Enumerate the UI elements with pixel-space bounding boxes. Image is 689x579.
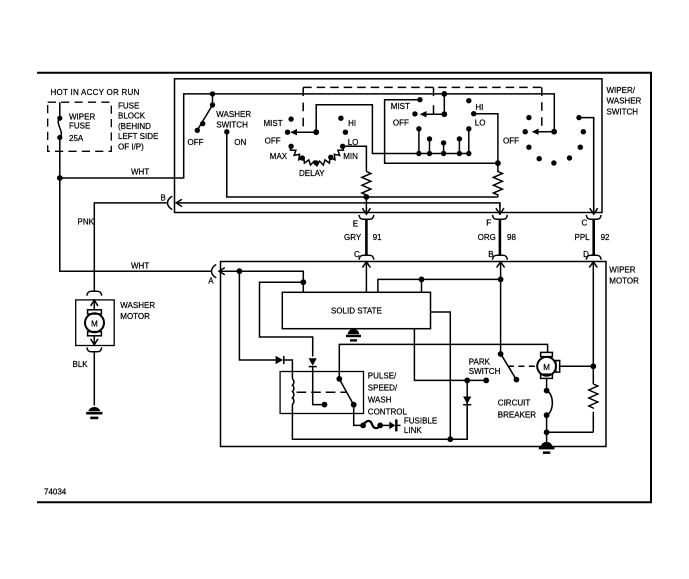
wire relay coil bottom to bus [292,404,450,439]
washer motor M1 [85,310,104,336]
wire resistor bottom to breaker net [547,431,594,433]
svg-text:ORG: ORG [478,233,496,242]
svg-text:WIPER/: WIPER/ [607,86,636,95]
wiper/washer switch box [175,79,603,213]
svg-text:OFF: OFF [265,137,281,146]
svg-text:OF I/P): OF I/P) [118,143,144,152]
connector A arrow [208,268,225,286]
resistor R2 [493,163,502,197]
svg-text:PPL: PPL [575,233,591,242]
wire motor right brush to D net [560,365,594,367]
svg-text:WIPER: WIPER [609,266,635,275]
svg-text:WASHER: WASHER [120,301,155,310]
node B net [498,277,504,283]
wiper fuse 25A [57,102,95,151]
svg-text:ON: ON [234,138,246,147]
label FUSE BLOCK (BEHIND LEFT SIDE OF I/P) [118,101,158,151]
G_SWITCH_INTERNALS [161,87,598,214]
wire S2 LO down [474,114,498,164]
svg-text:FUSE: FUSE [69,121,90,130]
svg-text:LEFT SIDE: LEFT SIDE [118,132,158,141]
svg-text:(BEHIND: (BEHIND [118,122,151,131]
svg-text:91: 91 [373,233,382,242]
solid state bottom output to park contact [414,329,486,381]
svg-text:HI: HI [475,103,483,112]
arrow down to bottom cup [91,336,98,345]
wire branch to relay coil via diode D1 [239,271,275,360]
wire PNK [78,203,167,291]
relay switch [336,376,356,408]
node park contact [464,378,470,384]
svg-text:B: B [161,193,166,202]
node D net motor [590,363,596,369]
delay resistor arc [288,144,345,166]
svg-text:WASHER: WASHER [607,97,642,106]
wire line1 E net [366,196,498,198]
svg-text:LO: LO [475,118,486,127]
G_MOTORBOX [208,262,639,454]
svg-text:BLK: BLK [73,360,89,369]
washer switch SW1 [188,91,252,147]
G_FUSEAREA [48,88,213,291]
resistor R1 [362,172,371,197]
solid state right output [431,312,451,439]
svg-text:MIN: MIN [343,152,358,161]
svg-text:PNK: PNK [78,217,95,226]
wire A net [219,271,303,292]
connector cup bottom [87,347,102,351]
svg-text:WHT: WHT [131,262,149,271]
wire ON to line1 [227,132,367,197]
wire S3 HI contact to C connector [579,118,594,214]
svg-text:F: F [486,218,491,227]
svg-text:MOTOR: MOTOR [120,312,150,321]
node A-SS junction [300,279,306,285]
junction node [57,175,63,181]
fusible link [360,416,437,435]
diode D1 [276,356,284,364]
wire B net arrow and park feed [497,262,505,354]
wire WHT bus inside switch [213,94,555,132]
wire BLK to ground [73,352,95,406]
svg-text:WHT: WHT [131,168,149,177]
park switch [469,351,520,382]
wire relay common to fusible link [354,405,363,426]
wiper motor M2 [537,352,560,378]
connector C arrow down [590,118,598,215]
contact relay NO [322,402,328,408]
S2 contact row [416,126,471,156]
svg-text:25A: 25A [69,134,84,143]
node E junction [364,194,370,200]
wire branch into SS [421,279,423,292]
relay box pulse/speed/wash control [280,372,407,417]
svg-text:92: 92 [601,233,610,242]
dashed mechanical link [303,87,545,132]
wire line B to diode D2 [260,282,313,356]
wire WHT down to A [60,178,212,271]
node R2 top junction [495,160,501,166]
svg-text:MIST: MIST [391,102,410,111]
svg-text:HOT IN ACCY OR RUN: HOT IN ACCY OR RUN [51,88,140,97]
node bus junction [447,436,453,442]
svg-text:CONTROL: CONTROL [368,407,408,416]
wire line2 B-F net [178,203,500,207]
ground washer [86,407,102,419]
wire motor bottom [546,378,548,390]
svg-text:SWITCH: SWITCH [607,108,639,117]
wire MIN to resistor R1 [343,146,367,171]
svg-text:BREAKER: BREAKER [498,410,536,419]
svg-text:C: C [354,250,360,259]
connector E-C harness wire GRY 91 [344,215,382,260]
rotary switch S3 [503,115,586,166]
connector A bracket [212,265,217,278]
rotary switch S1 (delay) [264,116,359,178]
fuse block dashed box [48,102,112,151]
svg-text:WASH: WASH [368,395,392,404]
wire D2 to relay contact [313,367,325,405]
svg-text:OFF: OFF [393,118,409,127]
svg-text:D: D [583,250,589,259]
arrow up into cup [91,300,98,310]
svg-text:E: E [353,219,358,228]
wire WHT to switch [60,94,213,178]
wiper motor box [221,262,607,447]
svg-text:B: B [488,250,493,259]
node resistor join [544,429,550,435]
svg-text:OFF: OFF [188,138,204,147]
connector F-B harness wire ORG 98 [478,215,517,260]
node branch SS top [419,277,425,283]
resistor R3 [589,366,598,432]
svg-text:M: M [543,363,550,372]
svg-text:SWITCH: SWITCH [469,367,501,376]
circuit breaker [498,388,553,420]
connector F arrow down [496,203,504,214]
relay coil [292,379,293,405]
svg-text:CIRCUIT: CIRCUIT [498,399,531,408]
border frame [37,73,651,503]
connector cup top [87,291,102,295]
wire D net arrow [589,262,597,367]
wire D1 to coil [284,360,293,379]
solid state module U1 [282,292,430,328]
contact park end [483,378,489,384]
diode D2 [309,358,317,366]
svg-text:HI: HI [348,119,356,128]
svg-text:PULSE/: PULSE/ [368,372,397,381]
rotary switch S2 [391,91,486,127]
svg-text:74034: 74034 [44,488,67,497]
svg-text:FUSE: FUSE [118,101,139,110]
svg-text:C: C [582,218,588,227]
svg-text:FUSIBLE: FUSIBLE [404,416,437,425]
G_SWITCHBOX [175,79,642,213]
wire bus to diode D3 [450,405,467,440]
svg-text:MOTOR: MOTOR [609,277,639,286]
dashed link park to motor [508,365,536,367]
svg-text:MAX: MAX [270,152,288,161]
washer motor box [76,300,115,346]
svg-text:LINK: LINK [404,426,422,435]
wire S2 MIST loop [385,100,498,164]
wire breaker to ground [546,415,548,442]
node A branch [237,268,243,274]
connector B arrow [161,193,183,206]
diode D3 [463,380,471,439]
wire line A2: SS top links [378,279,501,292]
svg-text:M: M [91,319,98,328]
svg-text:WASHER: WASHER [216,110,251,119]
svg-text:SPEED/: SPEED/ [368,384,398,393]
svg-text:OFF: OFF [503,137,519,146]
svg-text:98: 98 [507,233,516,242]
wire relay contact riser to motor [339,344,547,379]
svg-text:BLOCK: BLOCK [118,112,146,121]
svg-text:SWITCH: SWITCH [216,121,248,130]
wire S1 common riser to S2 row [316,105,419,154]
svg-text:SOLID STATE: SOLID STATE [331,306,382,315]
dashed link relay [297,391,346,393]
wire C net into SS [362,262,370,293]
svg-text:GRY: GRY [344,233,362,242]
ground solid state [346,329,361,342]
contact ON [224,129,229,134]
connector C-D harness wire PPL 92 [575,215,611,260]
svg-text:A: A [208,276,214,285]
G_WASHERMOTOR [73,291,156,419]
ground wiper motor [539,442,555,454]
svg-text:DELAY: DELAY [299,169,325,178]
svg-text:MIST: MIST [264,119,283,128]
connector E arrow down [362,197,370,214]
svg-text:PARK: PARK [469,358,491,367]
G_CONNROW [344,215,610,260]
svg-text:WIPER: WIPER [69,113,95,122]
connector B bracket [168,196,173,209]
wire fuse to junction [59,151,61,178]
